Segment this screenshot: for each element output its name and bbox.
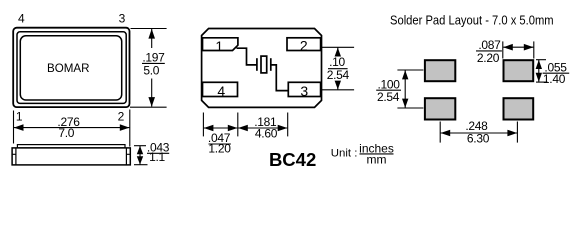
svg-text:1.20: 1.20 bbox=[208, 142, 231, 156]
dimension .055/1.40 bbox=[536, 60, 548, 82]
dimension line .047 bbox=[204, 127, 238, 129]
dimension .197/5.0 bbox=[130, 29, 167, 108]
svg-text:3: 3 bbox=[119, 11, 126, 25]
pad top-right bbox=[504, 60, 534, 81]
dimension .087/2.20 bbox=[503, 41, 534, 58]
svg-text:2.54: 2.54 bbox=[327, 68, 350, 82]
pad top-left bbox=[425, 60, 455, 81]
pad 3 bbox=[288, 82, 320, 96]
svg-text:2: 2 bbox=[118, 110, 125, 124]
wire crystal to pad3 bbox=[271, 65, 289, 91]
svg-text:4: 4 bbox=[217, 83, 225, 99]
side view body bbox=[12, 145, 130, 165]
pad 4 bbox=[203, 82, 238, 96]
dimension .10/2.54 bbox=[322, 47, 355, 90]
crystal body bbox=[261, 56, 267, 73]
dimension extension lines bottom bbox=[203, 113, 287, 137]
svg-text:4.60: 4.60 bbox=[255, 127, 278, 141]
svg-text:2.54: 2.54 bbox=[377, 90, 400, 104]
svg-text:BC42: BC42 bbox=[269, 149, 316, 170]
svg-text:3: 3 bbox=[300, 83, 308, 99]
package mid outline bbox=[17, 32, 126, 104]
package outer outline bbox=[13, 28, 129, 107]
svg-text:.197: .197 bbox=[142, 50, 165, 64]
pad 1 (pentagon) bbox=[203, 38, 238, 51]
svg-text:.087: .087 bbox=[478, 38, 501, 52]
svg-text:.10: .10 bbox=[329, 55, 345, 69]
svg-text:Unit :: Unit : bbox=[331, 147, 358, 159]
svg-text:mm: mm bbox=[367, 152, 387, 166]
pad 2 bbox=[287, 38, 321, 51]
svg-text:4: 4 bbox=[18, 11, 25, 25]
dimension line .181 (fraction bar) bbox=[238, 127, 287, 129]
svg-text:Solder Pad Layout - 7.0 x 5.0m: Solder Pad Layout - 7.0 x 5.0mm bbox=[390, 13, 554, 28]
dimension .276/7.0 bbox=[14, 110, 130, 147]
svg-text:1: 1 bbox=[16, 110, 23, 124]
dimension .248/6.30 bbox=[440, 122, 517, 143]
crystal right electrode bbox=[270, 58, 272, 71]
wire pad1 to crystal bbox=[237, 48, 257, 65]
svg-text:BOMAR: BOMAR bbox=[47, 61, 90, 75]
svg-text:6.30: 6.30 bbox=[467, 131, 490, 145]
svg-text:2: 2 bbox=[300, 38, 308, 54]
pad bottom-right bbox=[504, 98, 534, 119]
svg-text:2.20: 2.20 bbox=[477, 51, 500, 65]
svg-text:5.0: 5.0 bbox=[143, 64, 159, 78]
dimension .100/2.54 bbox=[397, 70, 423, 108]
package lid outline bbox=[20, 36, 121, 100]
package octagon outline bbox=[202, 29, 322, 108]
svg-text:7.0: 7.0 bbox=[58, 126, 74, 140]
svg-text:1.40: 1.40 bbox=[543, 72, 566, 86]
svg-text:1.1: 1.1 bbox=[149, 150, 165, 164]
pad bottom-left bbox=[425, 98, 455, 119]
svg-text:1: 1 bbox=[215, 38, 223, 54]
crystal left electrode bbox=[256, 58, 258, 71]
dimension .043/1.1 bbox=[134, 146, 148, 165]
